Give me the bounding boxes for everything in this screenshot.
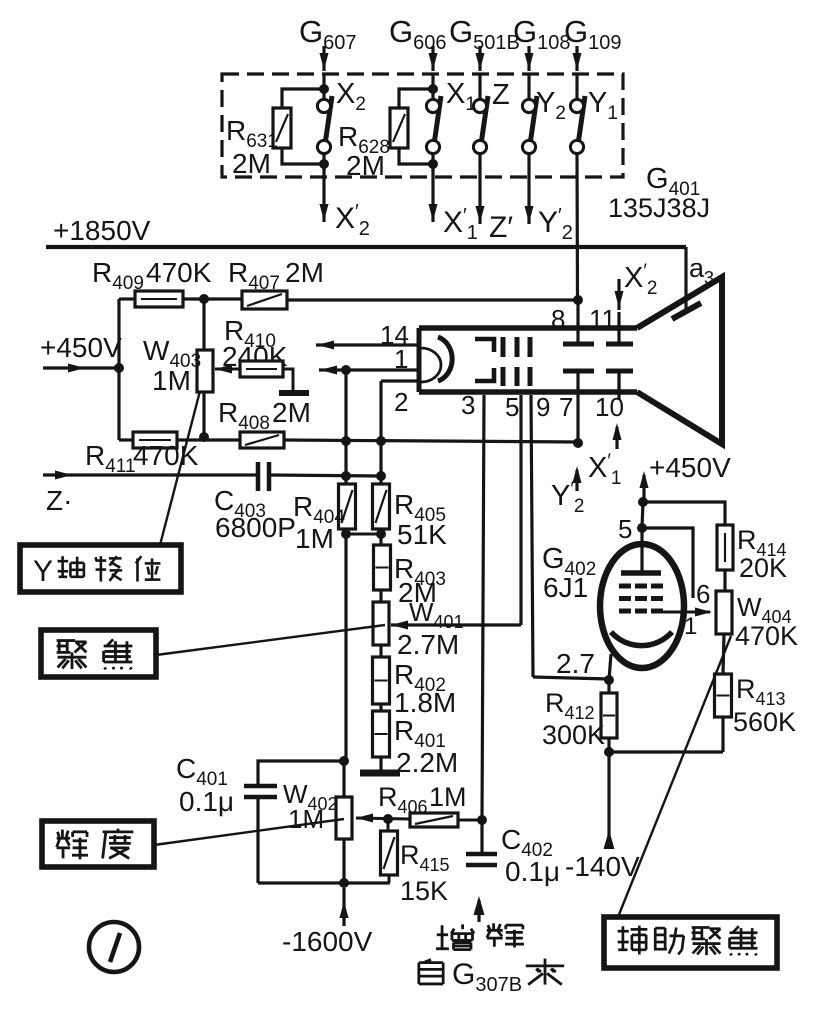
svg-text:2M: 2M [346,150,385,181]
svg-text:-1600V: -1600V [282,926,373,957]
svg-text:1M: 1M [152,365,191,396]
svg-text:0.1μ: 0.1μ [505,856,560,887]
svg-text:300K: 300K [542,720,605,750]
svg-text:2M: 2M [272,397,311,428]
svg-text:20K: 20K [739,553,787,583]
svg-text:3: 3 [461,390,475,420]
svg-text:1M: 1M [295,523,334,554]
svg-text:5: 5 [505,392,519,422]
svg-text:+450V: +450V [40,332,122,363]
svg-text:Y: Y [33,555,53,588]
svg-text:15K: 15K [400,876,448,906]
svg-text:9: 9 [536,392,550,422]
svg-text:2.7M: 2.7M [397,629,459,660]
svg-text:2M: 2M [285,257,324,288]
svg-text:8: 8 [551,304,565,334]
svg-text:560K: 560K [733,707,796,737]
svg-text:2.2M: 2.2M [396,747,458,778]
svg-text:1: 1 [684,613,697,640]
svg-text:0.1μ: 0.1μ [179,786,234,817]
svg-text:5: 5 [618,514,632,544]
svg-text:2: 2 [394,387,408,417]
svg-text:1.8M: 1.8M [394,687,456,718]
svg-text:135J38J: 135J38J [608,193,710,223]
svg-text:1: 1 [394,344,408,374]
svg-text:+1850V: +1850V [53,215,151,246]
svg-text:51K: 51K [397,519,447,550]
svg-text:7: 7 [559,392,573,422]
svg-text:1M: 1M [288,804,324,834]
svg-text:6: 6 [696,579,710,609]
svg-text:470K: 470K [133,440,199,471]
svg-text:+450V: +450V [649,452,731,483]
svg-text:Z·: Z· [46,485,72,516]
svg-text:2M: 2M [232,148,271,179]
svg-text:470K: 470K [735,621,798,651]
svg-text:-140V: -140V [565,851,640,882]
svg-text:Z: Z [492,79,510,111]
svg-text:470K: 470K [146,257,212,288]
svg-text:2.7: 2.7 [556,648,595,679]
svg-text:10: 10 [595,392,624,422]
svg-text:Z′: Z′ [489,211,513,244]
svg-text:6J1: 6J1 [543,572,588,603]
svg-text:1M: 1M [429,782,467,812]
svg-text:11: 11 [589,304,616,334]
svg-text:6800P: 6800P [215,512,296,543]
